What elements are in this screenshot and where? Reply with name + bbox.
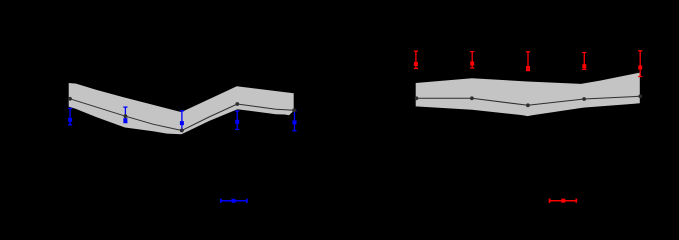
errorbar B1: square marker — [68, 118, 72, 122]
errorbar B2: bottom cap — [123, 122, 127, 124]
left marker point 3 — [180, 129, 184, 133]
left marker point 4 — [235, 102, 239, 106]
errorbar R2: vertical line — [471, 52, 473, 68]
errorbar R5: bottom cap — [638, 76, 642, 78]
errorbar B1: vertical line — [69, 108, 71, 125]
errorbar R5: square marker — [638, 66, 642, 70]
left confidence band — [69, 83, 294, 134]
right marker point 1 — [415, 96, 419, 100]
left marker point 2 — [124, 114, 128, 118]
errorbar R4: vertical line — [583, 53, 585, 70]
right marker point 2 — [470, 96, 474, 100]
errorbar B3: top cap — [180, 110, 184, 112]
left marker point 5 — [292, 108, 296, 112]
right model line — [416, 96, 640, 105]
errorbar R2: top cap — [470, 51, 474, 53]
errorbar B2: top cap — [123, 106, 127, 108]
errorbar B2: vertical line — [124, 107, 126, 123]
errorbar B4: vertical line — [236, 111, 238, 129]
right marker point 4 — [582, 97, 586, 101]
errorbar R3: square marker — [526, 66, 530, 70]
errorbar R1: bottom cap — [414, 67, 418, 69]
errorbar B4: square marker — [235, 120, 239, 124]
errorbar R3: top cap — [526, 51, 530, 53]
errorbar R3: bottom cap — [526, 70, 530, 72]
errorbar R4: top cap — [582, 52, 586, 54]
left legend errorbar glyph — [221, 200, 247, 202]
errorbar B5: square marker — [293, 120, 297, 124]
errorbar B3: bottom cap — [180, 129, 184, 131]
errorbar R1: top cap — [414, 50, 418, 52]
errorbar B1: top cap — [68, 107, 72, 109]
errorbar B1: bottom cap — [68, 124, 72, 126]
errorbar B5: vertical line — [294, 111, 296, 131]
errorbar R2: bottom cap — [470, 67, 474, 69]
right marker point 5 — [638, 94, 642, 98]
left model line — [69, 98, 294, 130]
right legend errorbar glyph — [550, 200, 577, 202]
errorbar B5: top cap — [292, 110, 296, 112]
errorbar R2: square marker — [470, 62, 474, 66]
errorbar R5: vertical line — [639, 51, 641, 77]
errorbar B4: bottom cap — [235, 128, 239, 130]
errorbar B3: vertical line — [181, 111, 183, 130]
errorbar R1: vertical line — [415, 51, 417, 68]
right confidence band — [416, 73, 640, 117]
errorbar R4: square marker — [582, 64, 586, 68]
errorbar B3: square marker — [180, 121, 184, 125]
errorbar R1: square marker — [414, 62, 418, 66]
errorbar B2: square marker — [123, 118, 127, 122]
errorbar R4: bottom cap — [582, 68, 586, 70]
errorbar R5: top cap — [638, 50, 642, 52]
errorbar R3: vertical line — [527, 52, 529, 71]
right marker point 3 — [526, 103, 530, 107]
errorbar B5: bottom cap — [292, 130, 296, 132]
errorbar B4: top cap — [235, 110, 239, 112]
left marker point 1 — [68, 97, 72, 101]
